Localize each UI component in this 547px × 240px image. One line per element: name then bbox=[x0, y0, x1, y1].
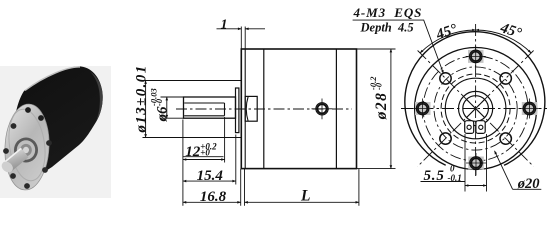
svg-text:15.4: 15.4 bbox=[197, 168, 224, 184]
svg-text:5.5: 5.5 bbox=[424, 168, 445, 184]
svg-text:45°: 45° bbox=[497, 20, 523, 42]
svg-text:16.8: 16.8 bbox=[200, 189, 227, 205]
svg-text:-0.03: -0.03 bbox=[149, 88, 159, 106]
svg-text:L: L bbox=[300, 188, 310, 205]
svg-text:1: 1 bbox=[221, 17, 228, 32]
svg-text:4-M3 EQS: 4-M3 EQS bbox=[353, 5, 423, 20]
svg-text:-0.1: -0.1 bbox=[448, 173, 462, 183]
svg-text:+0: +0 bbox=[200, 148, 210, 158]
svg-text:ø28: ø28 bbox=[373, 92, 390, 121]
svg-text:Depth 4.5: Depth 4.5 bbox=[360, 21, 414, 35]
svg-text:0: 0 bbox=[450, 163, 455, 173]
svg-text:ø6: ø6 bbox=[154, 106, 170, 123]
svg-text:-0.2: -0.2 bbox=[368, 76, 378, 90]
svg-text:12: 12 bbox=[185, 144, 201, 160]
svg-text:ø13±0.01: ø13±0.01 bbox=[133, 64, 149, 133]
svg-text:ø20: ø20 bbox=[517, 176, 540, 192]
